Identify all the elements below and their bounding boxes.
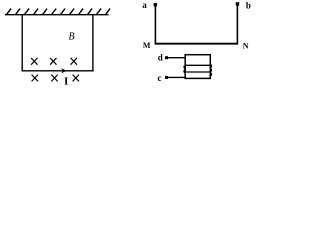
terminal b (square): [236, 2, 239, 5]
wire: M to N: [155, 43, 239, 45]
svg-text:N: N: [243, 42, 249, 51]
wire: N up to b: [236, 6, 238, 44]
terminal d (square): [165, 56, 168, 59]
svg-text:I: I: [64, 75, 68, 87]
svg-text:B: B: [68, 31, 74, 42]
current direction arrow on bottom wire: [61, 68, 67, 73]
wire: bottom side of hanging loop (carries current I): [22, 70, 94, 72]
terminal a (square): [154, 3, 157, 6]
ceiling hatch marks: [7, 9, 111, 15]
terminal c (square): [165, 76, 168, 79]
coil turn loops right side: [210, 64, 211, 76]
ceiling (fixed support): [5, 14, 109, 16]
coil turn loops left side: [184, 65, 185, 72]
wire: left side of hanging loop: [21, 15, 23, 71]
svg-text:d: d: [158, 52, 163, 62]
wire: c to coil: [168, 76, 186, 78]
wire: right side of hanging loop: [92, 15, 94, 71]
coil L (winding on core) body: [185, 55, 210, 79]
coil turn wire 2: [185, 71, 210, 73]
svg-text:b: b: [246, 0, 251, 10]
coil turn wire 1: [185, 64, 210, 66]
wire: d to coil: [168, 57, 186, 59]
field symbol x (into page) row 2: [32, 75, 79, 82]
wire: a down to M: [154, 6, 156, 43]
svg-text:c: c: [158, 73, 162, 83]
svg-text:M: M: [143, 41, 151, 50]
field symbol x (into page) row 1: [31, 58, 77, 65]
svg-text:a: a: [142, 0, 147, 10]
